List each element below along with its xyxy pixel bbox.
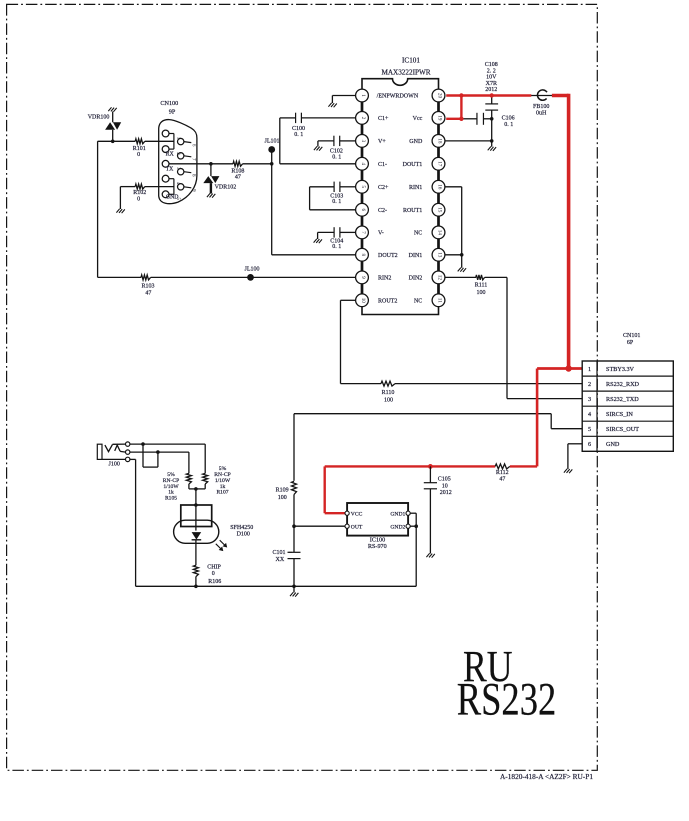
svg-text:/ENPWRDOWN: /ENPWRDOWN [377,94,419,100]
svg-text:R105: R105 [165,496,177,502]
svg-text:8: 8 [360,254,366,257]
svg-text:ROUT1: ROUT1 [403,208,422,214]
svg-text:C101: C101 [273,550,286,556]
svg-text:R112: R112 [496,470,509,476]
svg-text:10: 10 [360,298,366,304]
svg-text:47: 47 [145,291,151,297]
svg-text:NC: NC [414,231,422,237]
svg-text:V-: V- [378,231,384,237]
svg-text:R103: R103 [141,284,154,290]
svg-text:10V: 10V [486,75,497,81]
svg-text:FB100: FB100 [533,104,549,110]
svg-text:R102: R102 [133,190,146,196]
svg-text:STBY3.3V: STBY3.3V [606,366,635,373]
svg-text:0. 1: 0. 1 [294,132,303,138]
svg-text:XX: XX [276,557,285,563]
svg-text:GND2: GND2 [390,524,405,530]
svg-text:4: 4 [360,163,366,166]
svg-text:A-1820-418-A <AZ2F> RU-P1: A-1820-418-A <AZ2F> RU-P1 [500,772,593,781]
svg-text:DIN1: DIN1 [409,253,423,259]
svg-text:RS-970: RS-970 [368,543,387,550]
svg-text:SIRCS_IN: SIRCS_IN [606,411,633,418]
svg-text:14: 14 [437,230,443,236]
svg-text:0: 0 [137,152,140,158]
svg-text:X7R: X7R [486,81,497,87]
svg-text:19: 19 [437,115,443,121]
svg-text:100: 100 [477,290,486,296]
svg-text:V+: V+ [378,139,386,145]
svg-text:GND1: GND1 [390,511,405,517]
svg-text:16: 16 [437,184,443,190]
svg-text:JL101: JL101 [265,138,280,144]
svg-text:C105: C105 [438,477,451,483]
svg-text:10: 10 [442,483,448,489]
svg-text:MAX3222IPWR: MAX3222IPWR [381,68,430,76]
svg-text:5: 5 [360,186,366,189]
svg-text:C2+: C2+ [378,185,389,191]
svg-text:C106: C106 [502,115,515,121]
svg-text:100: 100 [278,495,287,501]
svg-text:4: 4 [588,411,591,418]
svg-text:R101: R101 [133,146,146,152]
svg-text:12: 12 [437,275,443,281]
svg-text:VDR102: VDR102 [215,184,237,190]
svg-text:CN100: CN100 [160,100,178,107]
svg-text:RIN2: RIN2 [378,276,391,282]
svg-text:NC: NC [414,299,422,305]
svg-text:R107: R107 [216,490,228,496]
svg-text:0: 0 [212,571,215,577]
svg-text:RS232_RXD: RS232_RXD [606,381,640,388]
svg-text:TX: TX [166,167,175,173]
svg-text:DOUT2: DOUT2 [378,253,398,259]
svg-text:2: 2 [360,117,366,120]
svg-text:5: 5 [588,426,591,433]
svg-text:18: 18 [437,138,443,144]
svg-text:0. 1: 0. 1 [332,154,341,160]
svg-text:6P: 6P [627,340,634,346]
svg-text:2012: 2012 [440,490,452,496]
svg-text:ROUT2: ROUT2 [378,299,397,305]
svg-text:47: 47 [499,476,505,482]
svg-text:RX: RX [166,151,175,157]
svg-text:GND: GND [409,139,423,145]
svg-text:9P: 9P [169,109,176,116]
svg-text:C1+: C1+ [378,116,389,122]
svg-text:0. 1: 0. 1 [332,199,341,205]
svg-text:D100: D100 [237,531,250,537]
svg-text:0uH: 0uH [536,110,547,116]
svg-text:1: 1 [588,366,591,373]
svg-text:RS232: RS232 [457,674,557,725]
svg-text:OUT: OUT [351,524,363,530]
svg-text:0: 0 [137,197,140,203]
svg-text:VDR100: VDR100 [88,114,110,120]
svg-text:C108: C108 [485,62,498,68]
svg-text:R109: R109 [276,488,289,494]
svg-text:47: 47 [235,174,241,180]
svg-text:SIRCS_OUT: SIRCS_OUT [606,426,639,433]
svg-text:2. 2: 2. 2 [487,68,496,74]
svg-text:9: 9 [360,276,366,279]
svg-text:VCC: VCC [351,511,363,517]
svg-text:DIN2: DIN2 [409,276,423,282]
svg-text:3: 3 [588,396,591,403]
svg-text:100: 100 [384,397,393,403]
svg-text:15: 15 [437,207,443,213]
svg-text:6: 6 [588,441,591,448]
svg-text:CN101: CN101 [623,333,640,339]
svg-text:13: 13 [437,252,443,258]
svg-text:3: 3 [360,140,366,143]
svg-text:RIN1: RIN1 [409,185,422,191]
svg-text:7: 7 [360,231,366,234]
svg-text:0. 1: 0. 1 [504,122,513,128]
svg-text:RS232_TXD: RS232_TXD [606,396,639,403]
svg-text:JL100: JL100 [245,266,260,272]
svg-text:J100: J100 [109,462,120,468]
svg-text:17: 17 [437,161,443,167]
svg-text:R110: R110 [382,390,395,396]
svg-text:6: 6 [360,209,366,212]
svg-text:IC101: IC101 [402,57,420,65]
svg-text:1: 1 [360,94,366,97]
svg-text:0. 1: 0. 1 [332,244,341,250]
svg-text:SFH4250: SFH4250 [230,525,253,531]
svg-text:CHIP: CHIP [207,565,221,571]
svg-text:11: 11 [437,298,443,303]
svg-text:C1-: C1- [378,162,387,168]
svg-text:2012: 2012 [485,87,497,93]
svg-text:R106: R106 [208,579,221,585]
svg-text:GND: GND [606,441,620,448]
svg-text:DOUT1: DOUT1 [403,162,423,168]
svg-text:R111: R111 [475,282,488,288]
svg-text:C2-: C2- [378,208,387,214]
svg-text:2: 2 [588,381,591,388]
svg-text:Vcc: Vcc [413,116,423,122]
svg-text:20: 20 [437,93,443,99]
svg-text:GND: GND [166,194,179,200]
